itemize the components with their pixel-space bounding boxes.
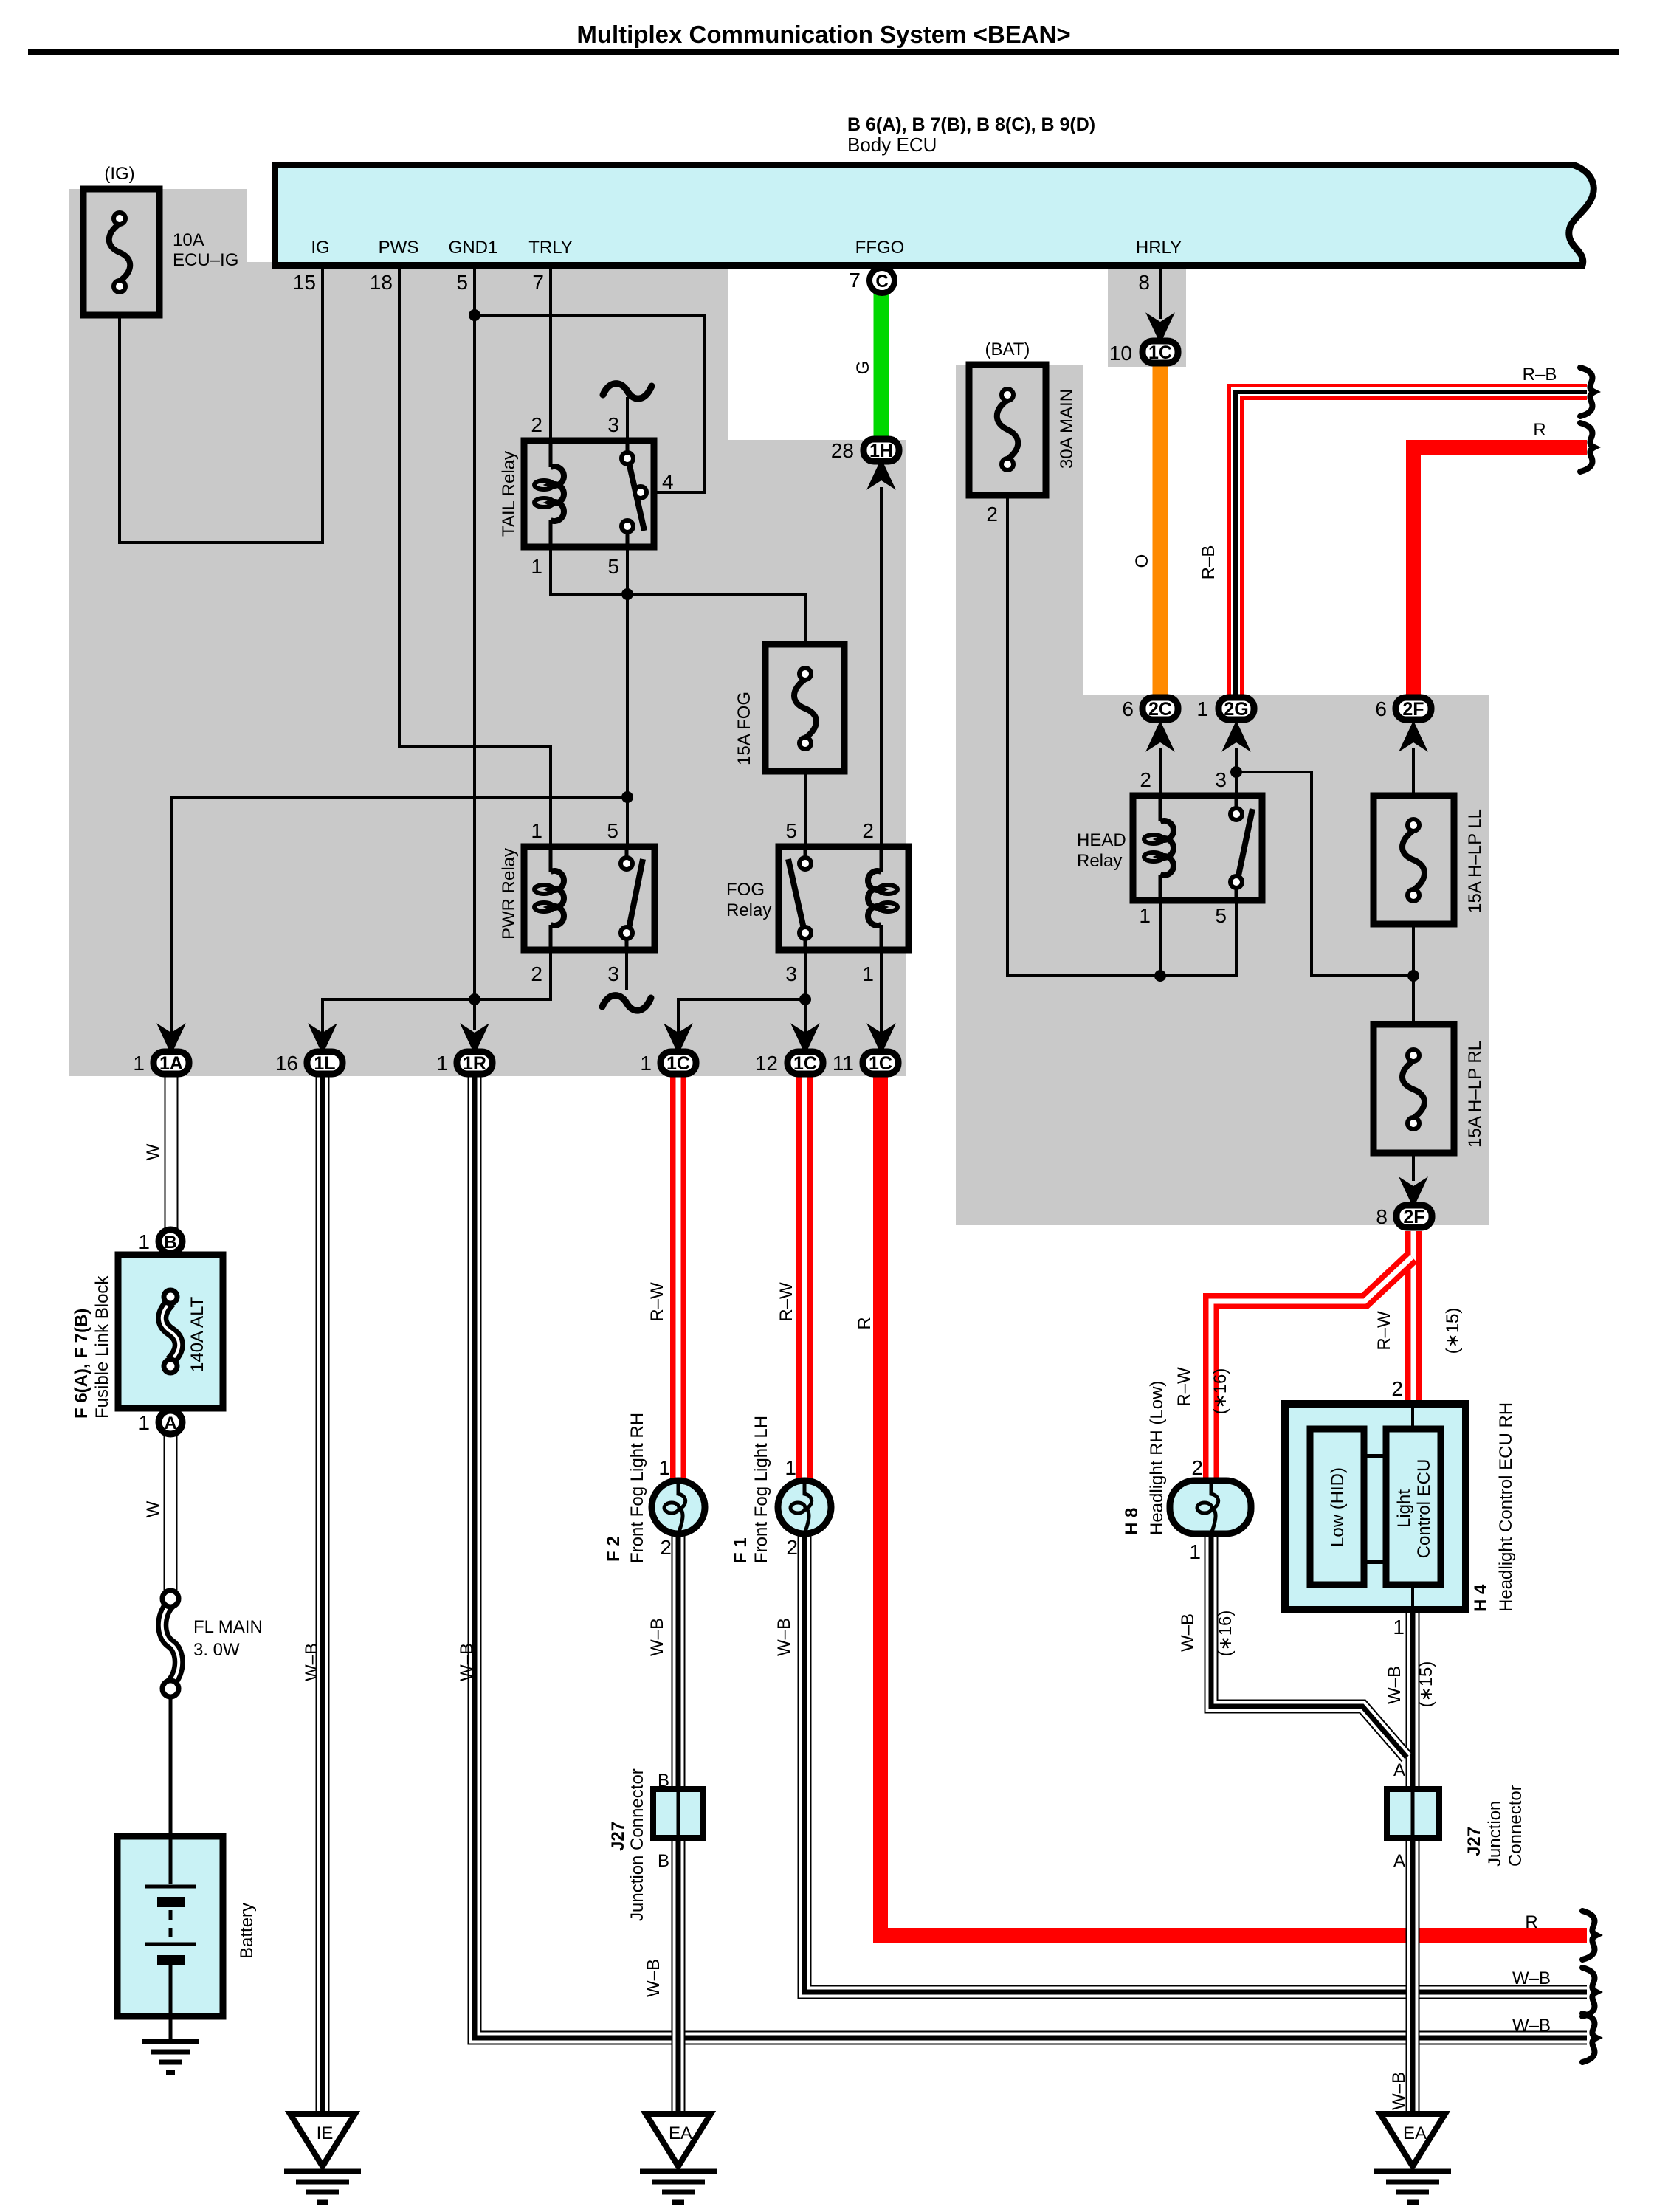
svg-text:12: 12 xyxy=(755,1052,778,1075)
wire F1 wb to right break xyxy=(804,1532,1587,1992)
junction connector J27 right xyxy=(1387,1789,1439,1838)
svg-text:GND1: GND1 xyxy=(449,238,498,258)
gray background right block xyxy=(956,695,1489,1225)
svg-text:1: 1 xyxy=(133,1052,145,1075)
ground EA right xyxy=(1380,2114,1445,2166)
connector 1C no10 oval xyxy=(1150,317,1171,340)
svg-text:1: 1 xyxy=(436,1052,448,1075)
svg-text:H 8: H 8 xyxy=(1122,1508,1142,1535)
svg-text:1C: 1C xyxy=(869,1053,892,1074)
svg-text:W–B: W–B xyxy=(774,1618,794,1656)
fuse 15A H-LP RL xyxy=(1374,1024,1454,1153)
svg-text:1C: 1C xyxy=(666,1053,690,1074)
svg-text:Fusible Link Block: Fusible Link Block xyxy=(92,1275,112,1419)
connector A circle xyxy=(159,1410,182,1434)
svg-text:Light: Light xyxy=(1394,1489,1414,1528)
relay HEAD switch xyxy=(1235,796,1238,900)
break W-B 2 xyxy=(1582,2013,1596,2062)
node HEAD1-BAT xyxy=(1154,970,1166,982)
wire H4 pin1 wb to J27 xyxy=(1406,1613,1420,1789)
svg-text:5: 5 xyxy=(607,555,619,578)
svg-text:(BAT): (BAT) xyxy=(985,340,1030,359)
ground IE xyxy=(290,2114,355,2166)
wire battery to ground xyxy=(169,2013,173,2042)
svg-text:3. 0W: 3. 0W xyxy=(193,1640,240,1660)
svg-text:R–B: R–B xyxy=(1523,365,1557,385)
svg-text:Junction: Junction xyxy=(1485,1801,1505,1867)
svg-text:5: 5 xyxy=(1215,904,1227,927)
wire R from 2F top to break xyxy=(1406,447,1421,696)
svg-text:PWR Relay: PWR Relay xyxy=(499,848,519,940)
wire F2 wb down through J27 left xyxy=(672,1532,686,1823)
svg-text:1A: 1A xyxy=(159,1053,183,1074)
wire orange O from 1C to 2C xyxy=(1153,365,1168,696)
node GND1-TAIL4 xyxy=(469,309,480,321)
node HEAD3 branch xyxy=(1230,766,1242,778)
node 1L-GND1-PWR2 xyxy=(469,993,480,1005)
svg-text:Headlight RH (Low): Headlight RH (Low) xyxy=(1147,1381,1167,1535)
node 1C1-FOG3 xyxy=(799,993,811,1005)
relay FOG coil xyxy=(880,847,883,950)
lamp F1 Front Fog Light LH xyxy=(778,1481,831,1534)
gray background HRLY strip xyxy=(1108,262,1186,367)
svg-text:W–B: W–B xyxy=(1385,1666,1405,1704)
H4 inner Light Control ECU box xyxy=(1386,1429,1441,1585)
svg-text:Connector: Connector xyxy=(1506,1785,1526,1867)
svg-text:1: 1 xyxy=(1139,904,1151,927)
break R top xyxy=(1580,423,1594,472)
fusible link 140A ALT symbol xyxy=(162,1302,179,1361)
svg-text:15A FOG: 15A FOG xyxy=(734,692,754,765)
svg-text:28: 28 xyxy=(831,439,854,462)
svg-text:1: 1 xyxy=(1393,1616,1405,1639)
svg-text:2: 2 xyxy=(531,962,542,985)
connector 1H oval xyxy=(871,463,892,485)
fuse 15A H-LP LL xyxy=(1374,796,1454,924)
svg-text:2: 2 xyxy=(531,413,542,436)
svg-text:F 2: F 2 xyxy=(604,1536,624,1562)
connector C circle FFGO xyxy=(869,268,895,293)
wire FL MAIN to battery xyxy=(169,1695,173,1839)
wire TAIL pin1 to junction xyxy=(551,544,627,594)
relay PWR box xyxy=(524,847,655,950)
svg-text:1C: 1C xyxy=(793,1053,817,1074)
svg-text:4: 4 xyxy=(662,470,674,493)
wire HRLY pin8 to 1C no10 xyxy=(1159,264,1162,319)
junction connector J27 left xyxy=(653,1789,703,1838)
svg-text:15: 15 xyxy=(293,271,316,294)
relay FOG box xyxy=(779,847,909,950)
svg-text:A: A xyxy=(1393,1851,1405,1871)
wire RL fuse to 2F no8 xyxy=(1412,1150,1415,1181)
open end squiggle above TAIL pin3 xyxy=(603,384,652,399)
svg-text:Headlight Control ECU RH: Headlight Control ECU RH xyxy=(1496,1402,1516,1612)
relay PWR switch xyxy=(625,847,629,950)
svg-text:F 6(A), F 7(B): F 6(A), F 7(B) xyxy=(72,1309,92,1419)
svg-text:O: O xyxy=(1132,554,1152,568)
connector 1C no12 oval xyxy=(795,1028,816,1050)
wire 1C no1 to FOG pin3 xyxy=(678,947,805,1033)
connector 2F no8 oval xyxy=(1403,1182,1424,1204)
svg-text:2: 2 xyxy=(660,1536,672,1559)
svg-text:W: W xyxy=(143,1143,163,1160)
wire R-W from 2F no8 to H4 pin2 xyxy=(1405,1231,1422,1407)
wire FOG pin1 to 1C no11 xyxy=(880,947,883,1033)
svg-text:C: C xyxy=(875,272,888,292)
svg-text:W–B: W–B xyxy=(1512,1968,1551,1988)
svg-text:6: 6 xyxy=(1122,697,1134,720)
svg-text:R–W: R–W xyxy=(1374,1311,1394,1351)
svg-text:10: 10 xyxy=(1109,342,1132,365)
wire R below 1C no11 to right break xyxy=(873,1076,888,1928)
svg-text:R–W: R–W xyxy=(647,1282,667,1322)
svg-text:5: 5 xyxy=(456,271,468,294)
svg-text:R: R xyxy=(855,1317,875,1329)
svg-text:W–B: W–B xyxy=(644,1959,664,1997)
svg-text:TRLY: TRLY xyxy=(528,238,573,258)
relay HEAD coil xyxy=(1159,796,1162,900)
wire 2F to LL fuse xyxy=(1412,748,1415,799)
wire fusible link to A xyxy=(169,1366,173,1410)
wire TAIL pin5 down to PWR pin5 xyxy=(626,544,629,850)
svg-text:Body ECU: Body ECU xyxy=(847,134,937,156)
svg-text:Control ECU: Control ECU xyxy=(1414,1459,1434,1559)
svg-text:W: W xyxy=(143,1500,163,1517)
wire 15A FOG to FOG relay pin5 xyxy=(804,768,807,850)
H4 inner links xyxy=(1364,1456,1386,1562)
svg-text:B: B xyxy=(658,1851,669,1871)
wire J27 left to EA ground xyxy=(672,1823,686,2112)
break R-B xyxy=(1580,368,1594,416)
wire BAT to HEAD pins 1 and 5 xyxy=(1007,498,1236,976)
svg-text:11: 11 xyxy=(833,1052,854,1075)
fuse 30A MAIN symbol xyxy=(997,400,1019,459)
svg-text:2F: 2F xyxy=(1402,699,1424,720)
svg-text:5: 5 xyxy=(607,819,618,842)
relay TAIL coil xyxy=(549,441,553,547)
svg-text:R–W: R–W xyxy=(776,1282,796,1322)
svg-text:F 1: F 1 xyxy=(731,1537,751,1563)
ground EA left xyxy=(646,2114,711,2166)
svg-text:PWS: PWS xyxy=(379,238,419,258)
relay PWR coil xyxy=(549,847,553,950)
svg-text:3: 3 xyxy=(1215,768,1227,791)
svg-text:(∗15): (∗15) xyxy=(1416,1661,1436,1708)
wire LL fuse to RL fuse xyxy=(1412,921,1415,1027)
break W-B 1 xyxy=(1582,1968,1596,2016)
wire J27 right to EA ground xyxy=(1406,1823,1420,2112)
battery box xyxy=(117,1836,223,2016)
svg-text:J27: J27 xyxy=(1464,1827,1484,1856)
wire TRLY pin7 to TAIL pin2 xyxy=(549,264,552,444)
svg-text:1C: 1C xyxy=(1148,342,1172,363)
svg-text:W–B: W–B xyxy=(302,1643,322,1681)
svg-text:B 6(A), B 7(B), B 8(C), B 9(D): B 6(A), B 7(B), B 8(C), B 9(D) xyxy=(847,114,1095,135)
wire HEAD pin1 to junction xyxy=(1159,897,1162,976)
wire R-W below 1C no12 to F1 xyxy=(796,1076,813,1482)
svg-text:8: 8 xyxy=(1376,1205,1388,1228)
svg-text:8: 8 xyxy=(1138,271,1150,294)
svg-text:6: 6 xyxy=(1375,697,1387,720)
svg-text:2: 2 xyxy=(786,1536,798,1559)
wire R-W below 1C no1 to F2 xyxy=(670,1076,686,1482)
svg-text:1: 1 xyxy=(138,1230,150,1253)
svg-text:W–B: W–B xyxy=(1389,2072,1409,2110)
svg-text:A: A xyxy=(1393,1760,1405,1780)
connector 1A oval xyxy=(161,1028,182,1050)
wire R-B from 2G to break xyxy=(1236,392,1587,696)
fuse 30A MAIN box xyxy=(969,365,1046,495)
svg-text:EA: EA xyxy=(669,2123,692,2143)
svg-text:140A ALT: 140A ALT xyxy=(187,1296,207,1372)
connector 1C no1 oval xyxy=(668,1028,689,1050)
wire 1L PWR pin2 junction xyxy=(323,947,551,1033)
svg-text:R: R xyxy=(1533,420,1546,440)
svg-text:Battery: Battery xyxy=(237,1903,257,1959)
open end squiggle below PWR pin3 xyxy=(602,996,651,1011)
svg-text:3: 3 xyxy=(607,962,619,985)
wire HEAD pin3 branch to 2F column xyxy=(1236,772,1415,976)
relay HEAD box xyxy=(1133,796,1262,900)
connector 1C no11 oval xyxy=(871,1028,892,1050)
H4 internal wires xyxy=(1411,1407,1414,1607)
fusible link block box xyxy=(118,1255,223,1408)
connector 2F oval xyxy=(1403,725,1424,747)
svg-text:30A MAIN: 30A MAIN xyxy=(1057,389,1077,469)
Body ECU box xyxy=(275,165,1594,266)
lamp F2 Front Fog Light RH xyxy=(652,1481,705,1534)
gray background BAT strip xyxy=(956,365,1083,697)
svg-text:1: 1 xyxy=(1189,1540,1201,1563)
wire 1H to FOG relay pin2 xyxy=(880,487,883,850)
svg-text:1: 1 xyxy=(862,962,874,985)
svg-text:2F: 2F xyxy=(1403,1207,1424,1227)
svg-text:2C: 2C xyxy=(1148,699,1172,720)
wire PWR pin3 to open end xyxy=(625,947,628,990)
wire horiz to 1A xyxy=(171,797,627,1033)
svg-text:FFGO: FFGO xyxy=(855,238,905,258)
connector 1R oval xyxy=(464,1028,485,1050)
wire A to FL MAIN white xyxy=(164,1436,178,1593)
svg-text:1H: 1H xyxy=(869,441,893,461)
svg-text:HEAD: HEAD xyxy=(1077,830,1126,850)
wire GND1 branch to TAIL pin4 xyxy=(475,315,704,492)
fuse 10A ECU-IG box xyxy=(83,189,159,315)
wire 1L wb to IE ground xyxy=(316,1076,330,2112)
svg-text:10A: 10A xyxy=(173,230,204,250)
svg-text:1L: 1L xyxy=(314,1053,335,1074)
svg-text:2: 2 xyxy=(1191,1456,1203,1479)
relay TAIL switch xyxy=(626,441,630,547)
connector B circle xyxy=(159,1230,182,1253)
node TAIL1-5 xyxy=(621,588,633,600)
svg-text:1: 1 xyxy=(531,555,542,578)
svg-text:H 4: H 4 xyxy=(1471,1584,1491,1612)
svg-text:(IG): (IG) xyxy=(104,164,134,184)
svg-text:18: 18 xyxy=(370,271,393,294)
svg-text:3: 3 xyxy=(785,962,797,985)
svg-text:Low (HID): Low (HID) xyxy=(1328,1467,1348,1547)
lamp H8 Headlight RH Low xyxy=(1170,1481,1251,1534)
svg-text:Relay: Relay xyxy=(1077,851,1122,871)
svg-text:7: 7 xyxy=(532,271,544,294)
svg-text:HRLY: HRLY xyxy=(1136,238,1182,258)
svg-text:2G: 2G xyxy=(1224,699,1248,720)
svg-text:1R: 1R xyxy=(463,1053,486,1074)
break R bottom xyxy=(1582,1911,1596,1960)
svg-text:TAIL Relay: TAIL Relay xyxy=(499,451,519,537)
svg-text:1: 1 xyxy=(640,1052,652,1075)
svg-text:15A H–LP RL: 15A H–LP RL xyxy=(1465,1041,1485,1148)
svg-text:FL MAIN: FL MAIN xyxy=(193,1617,263,1637)
svg-text:Front Fog Light RH: Front Fog Light RH xyxy=(627,1413,647,1563)
svg-text:(∗16): (∗16) xyxy=(1210,1368,1230,1415)
svg-text:1: 1 xyxy=(1196,697,1208,720)
wire 1R wb to right break xyxy=(475,1076,1587,2038)
wire R-W branch to H8 pin2 xyxy=(1211,1257,1412,1484)
svg-text:2: 2 xyxy=(986,503,998,526)
svg-text:16: 16 xyxy=(275,1052,298,1075)
svg-text:EA: EA xyxy=(1403,2123,1427,2143)
connector 2G oval xyxy=(1226,725,1247,747)
wire 1A w to battery chain xyxy=(165,1076,179,1229)
svg-text:1: 1 xyxy=(138,1411,150,1434)
wire IG fuse to ECU pin15 xyxy=(120,264,323,542)
node 2F column xyxy=(1407,970,1419,982)
svg-text:R: R xyxy=(1525,1912,1537,1932)
connector 2C oval xyxy=(1150,725,1171,747)
fuse 15A FOG xyxy=(765,644,844,771)
svg-text:W–B: W–B xyxy=(1178,1613,1198,1652)
fuse 10A ECU-IG symbol xyxy=(109,224,131,281)
svg-text:1: 1 xyxy=(531,819,542,842)
svg-text:IG: IG xyxy=(311,238,329,258)
svg-text:B: B xyxy=(164,1233,176,1253)
svg-text:2: 2 xyxy=(862,819,874,842)
svg-text:ECU–IG: ECU–IG xyxy=(173,250,238,270)
node 1A feed xyxy=(621,791,633,803)
svg-text:A: A xyxy=(164,1413,176,1433)
wire green G from C to 1H xyxy=(874,292,889,438)
wire TAIL pin3 up to open end xyxy=(626,397,629,438)
svg-text:W–B: W–B xyxy=(1512,2016,1551,2036)
battery ground xyxy=(142,2039,199,2044)
relay TAIL box xyxy=(524,441,654,547)
H4 Headlight Control ECU box xyxy=(1285,1404,1466,1610)
svg-text:5: 5 xyxy=(785,819,797,842)
wire GND1 pin5 down to 1R xyxy=(473,264,476,1030)
svg-text:2: 2 xyxy=(1391,1377,1403,1400)
title rule xyxy=(28,49,1619,55)
svg-text:15A H–LP LL: 15A H–LP LL xyxy=(1465,809,1485,913)
svg-text:B: B xyxy=(658,1771,669,1791)
connector 1L oval xyxy=(312,1028,333,1050)
wire HEAD pin3 up to 2G xyxy=(1235,748,1238,799)
battery symbol xyxy=(169,1839,173,1884)
svg-text:2: 2 xyxy=(1140,768,1151,791)
wire B to fusible link xyxy=(169,1255,173,1297)
fusible link FL MAIN symbol xyxy=(162,1604,179,1684)
svg-text:(∗16): (∗16) xyxy=(1216,1610,1236,1657)
H4 inner Low HID box xyxy=(1310,1429,1364,1585)
svg-text:J27: J27 xyxy=(608,1822,628,1851)
wire PWS pin18 to PWR relay pin1 xyxy=(399,264,551,850)
svg-text:W–B: W–B xyxy=(457,1643,477,1681)
svg-text:W–B: W–B xyxy=(647,1618,667,1656)
svg-text:R–W: R–W xyxy=(1174,1367,1194,1407)
svg-text:Relay: Relay xyxy=(726,900,771,920)
wire HEAD pin2 up to 2C xyxy=(1159,748,1162,799)
svg-text:R–B: R–B xyxy=(1199,545,1219,580)
svg-text:Junction Connector: Junction Connector xyxy=(627,1768,647,1921)
wire junction to 15A FOG fuse xyxy=(627,594,805,647)
svg-text:FOG: FOG xyxy=(726,880,765,900)
svg-text:1: 1 xyxy=(658,1456,670,1479)
svg-text:IE: IE xyxy=(317,2123,334,2143)
wire H8 pin1 wb to J27 join xyxy=(1211,1532,1407,1757)
svg-text:7: 7 xyxy=(849,269,861,292)
svg-text:(∗15): (∗15) xyxy=(1443,1308,1463,1354)
svg-text:1: 1 xyxy=(785,1456,796,1479)
gray background left block xyxy=(69,189,247,1076)
svg-text:G: G xyxy=(853,361,873,375)
svg-text:Multiplex Communication System: Multiplex Communication System <BEAN> xyxy=(576,21,1070,48)
svg-text:3: 3 xyxy=(607,413,619,436)
svg-text:Front Fog Light LH: Front Fog Light LH xyxy=(751,1416,771,1563)
relay FOG switch xyxy=(804,847,807,950)
